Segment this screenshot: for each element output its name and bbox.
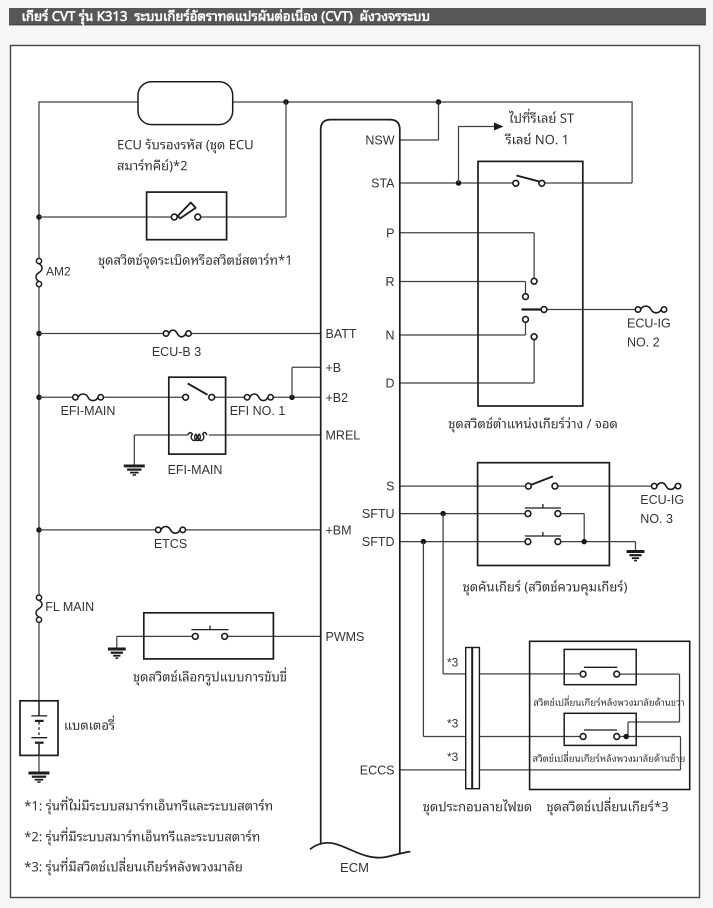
- pin P: [386, 226, 394, 240]
- wire ETCS fuse to +BM pin: [186, 529, 321, 531]
- pin D: [385, 377, 394, 391]
- node SFTU paddle branch: [440, 511, 446, 517]
- svg-text:*3: *3: [447, 750, 459, 764]
- pin MREL: [326, 429, 361, 443]
- svg-text:ETCS: ETCS: [154, 537, 187, 551]
- svg-text:ECCS: ECCS: [360, 763, 395, 777]
- drive mode select switch: [191, 626, 228, 640]
- node bus ETCS line: [36, 527, 42, 533]
- SFTU switch: [525, 504, 561, 517]
- wire NSW pin to riser: [400, 139, 439, 141]
- label paddle switch assembly: [547, 797, 668, 815]
- label EFI-MAIN fuse: [61, 404, 116, 418]
- footnote 2: [25, 827, 259, 845]
- svg-text:EFI-MAIN: EFI-MAIN: [168, 463, 223, 477]
- node paddle common junction: [623, 734, 629, 740]
- svg-text:+B2: +B2: [326, 391, 349, 405]
- node bus EFI line: [36, 395, 42, 401]
- label battery: [65, 716, 114, 730]
- node SFTU/SFTD output junction: [581, 539, 587, 545]
- pin PWMS: [326, 630, 365, 644]
- node top bus / NSW branch: [436, 99, 442, 105]
- label ECU-B 3: [152, 345, 201, 359]
- label ETCS: [154, 537, 187, 551]
- label spiral cable: [423, 799, 531, 815]
- battery box: [20, 701, 58, 756]
- wire PWMS switch to ground lead: [117, 635, 193, 637]
- svg-text:+BM: +BM: [326, 523, 352, 537]
- svg-text:N: N: [385, 329, 394, 343]
- contact R: [523, 294, 529, 300]
- node bus BATT line: [36, 331, 42, 337]
- svg-text:EFI-MAIN: EFI-MAIN: [61, 404, 116, 418]
- S switch contacts: [526, 476, 558, 489]
- svg-text:S: S: [386, 480, 394, 494]
- wire N pin to contact: [400, 322, 526, 335]
- wire top bus from ECU code box to right corner: [233, 101, 632, 103]
- right paddle switch contacts: [580, 667, 619, 677]
- svg-text:P: P: [386, 226, 394, 240]
- label ignition switch: [99, 253, 290, 269]
- contact P: [531, 278, 537, 284]
- label *3 middle: [447, 716, 459, 730]
- label ECM: [340, 860, 369, 875]
- svg-text:*3: *3: [447, 655, 459, 669]
- ground relay EFI-MAIN: [124, 466, 145, 475]
- fuse FL MAIN: [36, 595, 42, 622]
- fuse ECU-IG NO. 2: [635, 306, 666, 313]
- node +B branch: [289, 395, 295, 401]
- wire shift switch ground drop: [635, 542, 637, 552]
- wire coil to MREL pin: [209, 434, 321, 436]
- pin NSW: [365, 134, 394, 148]
- STA switch contacts: [513, 176, 545, 187]
- footnote 1: [25, 796, 272, 814]
- ignition switch SW box: [147, 192, 227, 240]
- label EFI NO. 1: [230, 404, 286, 418]
- ground battery: [29, 773, 50, 782]
- svg-text:SFTU: SFTU: [362, 507, 395, 521]
- shift lever switch box: [478, 463, 610, 566]
- wire bus to ETCS fuse: [39, 529, 155, 531]
- pin +B2: [326, 391, 349, 405]
- pin +B: [326, 361, 342, 375]
- paddle shift switch assembly box: [530, 641, 690, 789]
- label FL MAIN: [45, 600, 94, 614]
- svg-text:SFTD: SFTD: [362, 535, 395, 549]
- ground drive mode switch: [108, 649, 126, 658]
- wire top bus from battery bus to ECU code box: [39, 101, 138, 103]
- pin SFTD: [362, 535, 395, 549]
- wire relay coil to ground lead: [134, 434, 187, 436]
- drive mode select switch box: [144, 613, 274, 659]
- label right paddle: [534, 695, 684, 706]
- wire left battery bus middle: [38, 287, 40, 595]
- svg-text:*3: *3: [447, 716, 459, 730]
- wire S pin to switch: [400, 485, 526, 487]
- wire PWMS ground drop: [116, 636, 118, 649]
- svg-text:EFI NO. 1: EFI NO. 1: [230, 404, 286, 418]
- pin N: [385, 329, 394, 343]
- svg-text:+B: +B: [326, 361, 342, 375]
- wire R pin to contact: [400, 282, 526, 294]
- wire bus to ignition switch: [39, 216, 171, 218]
- svg-text:STA: STA: [371, 177, 395, 191]
- contact N: [523, 317, 529, 323]
- label left paddle: [533, 751, 684, 762]
- label AM2: [46, 264, 71, 278]
- wire EFI-MAIN fuse to relay: [104, 396, 183, 398]
- wire SFTD branch drop to spiral cable: [423, 542, 580, 737]
- wire SFTD pin to switch: [400, 541, 525, 543]
- label park/neutral switch: [449, 417, 617, 433]
- label ECU-IG NO. 3: [640, 493, 684, 526]
- wire right paddle output: [620, 674, 680, 736]
- wire ignition riser up to top bus: [285, 101, 287, 217]
- svg-text:ECU-B 3: ECU-B 3: [152, 345, 201, 359]
- pin STA: [371, 177, 395, 191]
- svg-text:PWMS: PWMS: [326, 630, 365, 644]
- wire bus to ECU-B fuse: [39, 333, 163, 335]
- ECM block: [310, 120, 410, 858]
- pin SFTU: [362, 507, 395, 521]
- svg-text:NSW: NSW: [365, 134, 394, 148]
- right paddle switch box: [564, 649, 636, 684]
- left paddle switch box: [564, 713, 636, 745]
- wire EFI NO.1 fuse to +B2 pin: [274, 396, 321, 398]
- fuse ETCS: [156, 527, 186, 534]
- svg-text:FL MAIN: FL MAIN: [45, 600, 94, 614]
- battery cells: [31, 701, 47, 756]
- node SFTD paddle branch: [421, 539, 427, 545]
- label shift lever switch: [463, 580, 627, 596]
- ECU code box (smart key ECU): [138, 82, 233, 125]
- wire NSW riser to top bus: [438, 101, 440, 140]
- svg-text:R: R: [385, 275, 394, 289]
- fuse AM2: [36, 258, 42, 286]
- pin ECCS: [360, 763, 395, 777]
- svg-text:NO. 2: NO. 2: [627, 335, 660, 349]
- fuse ECU-B 3: [163, 330, 191, 337]
- label ECU code box: [118, 139, 253, 173]
- wire SFTU pin to switch: [400, 513, 525, 515]
- wire +B branch riser: [292, 367, 321, 397]
- fuse EFI-MAIN: [73, 394, 104, 401]
- node bus ignition line: [36, 214, 42, 220]
- fuse EFI NO. 1: [244, 394, 273, 401]
- wire PN common to ECU-IG NO.2 fuse: [547, 309, 635, 311]
- wire ECU-B fuse to BATT pin: [191, 333, 320, 335]
- svg-text:D: D: [385, 377, 394, 391]
- svg-text:NO. 3: NO. 3: [640, 512, 673, 526]
- wire ignition switch to riser: [201, 216, 286, 218]
- pin R: [385, 275, 394, 289]
- svg-text:BATT: BATT: [326, 327, 357, 341]
- wire relay to EFI NO.1 fuse: [215, 396, 245, 398]
- wire left battery bus upper: [38, 101, 40, 258]
- svg-text:ECU-IG: ECU-IG: [640, 493, 684, 507]
- relay EFI-MAIN coil: [188, 432, 207, 440]
- label EFI-MAIN relay: [168, 463, 223, 477]
- wire SFTU branch drop to spiral cable: [443, 514, 580, 674]
- relay EFI-MAIN switch: [183, 383, 215, 400]
- wire PWMS switch to pin: [228, 635, 321, 637]
- fuse ECU-IG NO. 3: [652, 483, 681, 490]
- wire battery to ground: [38, 755, 40, 773]
- wire STA pin to PN switch: [400, 182, 513, 184]
- svg-text:ECU-IG: ECU-IG: [627, 316, 671, 330]
- wire P pin to contact: [400, 233, 534, 278]
- pin +BM: [326, 523, 352, 537]
- pin BATT: [326, 327, 357, 341]
- wire S switch to ECU-IG NO.3 fuse: [558, 485, 652, 487]
- PN common contact: [522, 307, 547, 313]
- wire relay ground drop: [133, 435, 135, 466]
- ignition switch contacts: [171, 203, 200, 220]
- spiral cable connector: [466, 648, 480, 789]
- label *3 lower: [447, 750, 459, 764]
- wire D pin to contact: [400, 340, 534, 383]
- svg-text:AM2: AM2: [46, 264, 71, 278]
- contact D: [531, 334, 537, 340]
- wire SFTU switch output: [561, 514, 584, 542]
- park/neutral position switch box: [478, 161, 583, 406]
- pin S: [386, 480, 394, 494]
- wire SFTD switch output to ground lead: [561, 541, 636, 543]
- wire bus to EFI-MAIN fuse: [39, 396, 73, 398]
- wire left battery bus lower: [38, 622, 40, 701]
- left paddle switch contacts: [580, 730, 619, 739]
- svg-text:ECM: ECM: [340, 860, 369, 875]
- ground shift switch: [627, 552, 645, 561]
- SFTD switch: [525, 532, 561, 544]
- wire STA switch output to right riser: [545, 182, 632, 184]
- wire ECCS pin to paddle switches: [400, 737, 681, 770]
- arrow to ST relay: [459, 109, 575, 183]
- wire top bus drop to STA switch: [631, 101, 633, 183]
- relay EFI-MAIN box: [169, 377, 226, 454]
- title bar: [9, 6, 706, 25]
- footnote 3: [25, 857, 242, 875]
- label drive mode switch: [134, 667, 286, 685]
- node STA relay branch: [456, 180, 462, 186]
- label *3 upper: [447, 655, 459, 669]
- svg-text:MREL: MREL: [326, 429, 361, 443]
- node top bus / ignition switch branch: [283, 99, 289, 105]
- label ECU-IG NO. 2: [627, 316, 671, 349]
